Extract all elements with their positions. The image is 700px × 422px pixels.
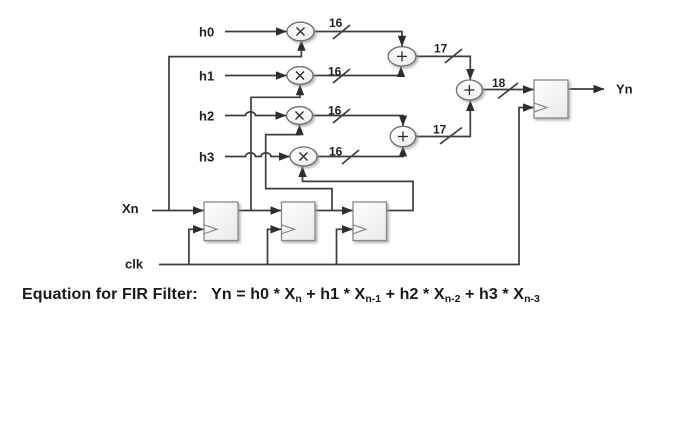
wire register R2 to register R3 [315,210,353,212]
wire node Xn-3 tap to M3 bottom input [303,167,414,211]
svg-text:h3: h3 [199,150,214,165]
wire M0 output to adder U5 top [314,32,402,47]
wire adder U7 output to register R4 data input [482,89,533,91]
multiplier M1 (h1 x Xn-1) [287,67,313,85]
wire register R1 to register R2 [238,210,281,212]
adder U5 (h0*Xn + h1*Xn-1) [388,47,416,66]
register R4 (output flip-flop) [534,80,568,118]
wire Xn input to register R1 [152,210,204,212]
wire clk riser to register R2 clock [268,229,282,264]
bus slash 16 on M0 output [333,25,350,39]
wire adder U6 output to adder U7 bottom [416,101,471,137]
wire clk riser to register R1 clock [189,229,204,264]
bus slash 16 on M2 output [333,109,350,123]
wire M1 output to adder U5 bottom [313,67,401,76]
svg-text:h0: h0 [199,25,214,40]
svg-text:17: 17 [434,42,448,56]
svg-text:16: 16 [328,104,342,118]
bus slash 16 on M1 output [333,69,350,83]
wire adder U5 output to adder U7 top [416,56,470,79]
multiplier M0 (h0 x Xn) [287,22,314,41]
wire node Xn-2 tap to M2 bottom input [266,125,332,211]
svg-text:18: 18 [492,76,506,90]
register R1 (Xn-1 delay flip-flop) [204,202,238,241]
register R3 (Xn-3 delay flip-flop) [353,202,387,241]
svg-text:h2: h2 [199,109,214,124]
adder U6 (h2*Xn-2 + h3*Xn-3) [390,126,416,146]
bus slash 17 on U5 output [445,49,462,63]
svg-text:16: 16 [329,145,343,159]
wire h1 input [225,75,287,77]
svg-text:clk: clk [125,257,144,272]
equation caption [22,286,540,305]
wire Xn tap to M0 bottom input [169,40,301,210]
svg-text:Yn: Yn [616,82,633,97]
wire M2 output to adder U6 top [313,116,404,126]
wire h2 input with hop over vertical [225,112,286,116]
wire clk line with riser to register R4 clock [159,108,534,265]
svg-text:16: 16 [328,65,342,79]
bus slash 16 on M3 output [342,150,359,164]
wire clk riser to register R3 clock [337,229,353,264]
wire register R4 output to Yn [568,88,604,90]
bus slash 17 on U6 output [440,128,462,145]
wire h3 input with two hops [225,153,290,157]
svg-text:Xn: Xn [122,201,139,216]
svg-text:16: 16 [329,16,343,30]
register R2 (Xn-2 delay flip-flop) [282,202,316,241]
multiplier M2 (h2 x Xn-2) [287,107,313,125]
svg-text:h1: h1 [199,69,214,84]
multiplier M3 (h3 x Xn-3) [290,147,317,166]
bus slash 18 on U7 output [498,83,518,99]
adder U7 (final sum) [456,80,482,100]
wire h0 input [225,31,287,33]
svg-text:17: 17 [433,123,447,137]
wire node Xn-1 tap to M1 bottom input [251,85,300,211]
wire M3 output to adder U6 bottom [317,146,403,156]
